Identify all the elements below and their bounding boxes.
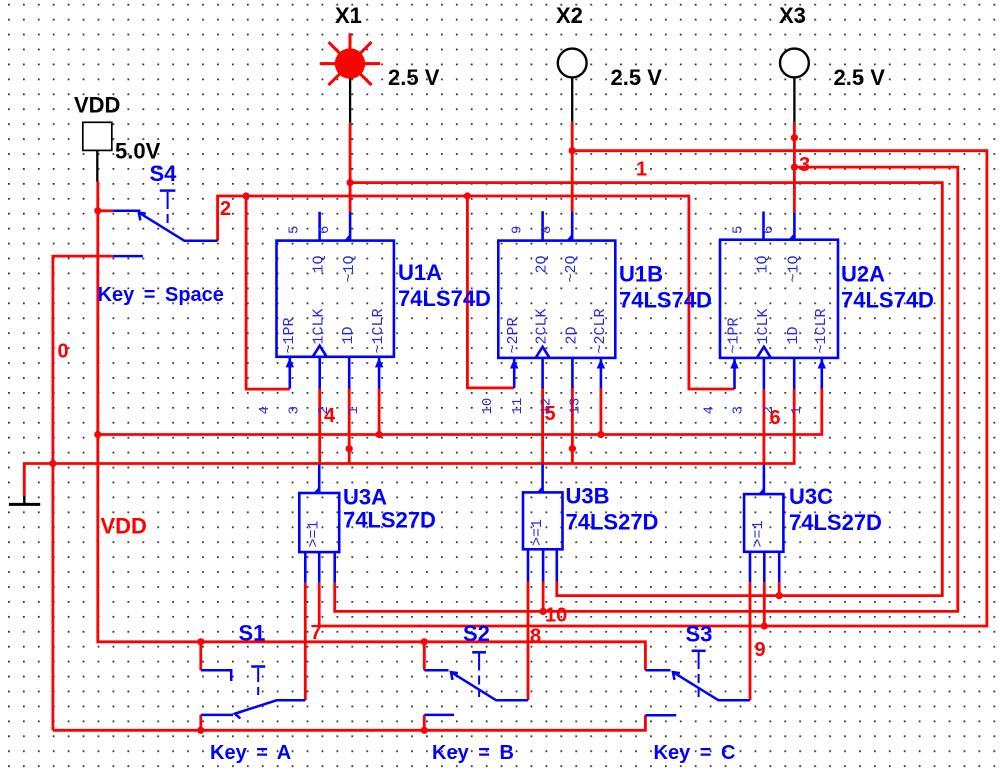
junction at VDD vertical and CLR bus — [94, 431, 101, 438]
svg-text:>=1: >=1 — [306, 520, 323, 547]
junction net 2 at U1A branch — [243, 192, 250, 199]
junction X3 lead and net 3 line — [791, 164, 798, 171]
svg-text:~2PR: ~2PR — [505, 317, 522, 353]
wire X1 lamp lead down to U1A pin 6 — [349, 123, 352, 212]
wire U3B output up to U1B 2CLK — [541, 387, 544, 464]
svg-text:1D: 1D — [785, 326, 802, 344]
gate U3A output tick — [314, 487, 320, 494]
junction on U1A 1D wire — [346, 445, 353, 452]
wire VDD stub to S4 left terminal — [98, 209, 113, 212]
svg-text:U2A: U2A — [841, 262, 885, 287]
svg-text:~1PR: ~1PR — [281, 317, 298, 353]
wire net 0 left vertical from S4 lower throw down to bottom rail — [53, 256, 113, 730]
svg-text:1Q: 1Q — [755, 255, 772, 273]
svg-text:S2: S2 — [463, 621, 490, 646]
svg-text:2.5 V: 2.5 V — [388, 65, 440, 90]
svg-text:1: 1 — [346, 406, 362, 414]
svg-text:74LS74D: 74LS74D — [841, 288, 934, 313]
wire S1 top contact stub from rail — [199, 642, 202, 671]
svg-text:Key = B: Key = B — [432, 742, 514, 764]
svg-text:13: 13 — [567, 398, 583, 415]
wire U1A 1D down to ground line — [348, 389, 351, 464]
junction S1 bottom at bottom rail — [197, 727, 204, 734]
svg-text:74LS27D: 74LS27D — [789, 510, 882, 535]
junction U1B ~2CLR at CLR bus — [597, 431, 604, 438]
lamp X1 (lit) — [320, 33, 381, 123]
wire net 8 S2 common up to U3B left input — [527, 582, 530, 701]
junction U1A ~1CLR at CLR bus — [376, 431, 383, 438]
svg-text:4: 4 — [702, 406, 718, 414]
svg-text:~2CLR: ~2CLR — [592, 308, 609, 353]
NOR gate U3C 74LS27D — [744, 465, 783, 583]
svg-text:S3: S3 — [686, 622, 713, 647]
svg-text:1D: 1D — [340, 326, 357, 344]
wire S2 bottom contact stub from bottom rail — [423, 715, 426, 730]
svg-text:3: 3 — [287, 406, 303, 414]
wire X2 lamp lead down to U1B pin 8 — [571, 122, 574, 212]
svg-text:10: 10 — [545, 605, 567, 627]
svg-text:9: 9 — [755, 639, 766, 661]
wire net 7 S1 common up to U3A left input — [304, 583, 307, 701]
svg-text:Key = A: Key = A — [210, 742, 291, 764]
svg-text:>=1: >=1 — [750, 520, 767, 547]
svg-text:VDD: VDD — [101, 514, 147, 539]
svg-text:S1: S1 — [239, 621, 266, 646]
wire net 9 S3 common up to U3C left input — [749, 582, 752, 700]
svg-text:Key = C: Key = C — [654, 742, 736, 764]
wire net 3 from X3 via right-side vertical x=958 to y=611 line and U3A right input — [335, 167, 958, 611]
svg-text:74LS74D: 74LS74D — [398, 286, 491, 311]
svg-text:1: 1 — [789, 406, 805, 414]
gate U3C output tick — [758, 488, 764, 495]
svg-text:~1PR: ~1PR — [726, 317, 743, 353]
svg-text:74LS27D: 74LS27D — [343, 508, 436, 533]
svg-text:5.0V: 5.0V — [115, 139, 161, 164]
gate U3B output tick — [537, 486, 543, 493]
svg-text:~1CLR: ~1CLR — [370, 308, 387, 353]
svg-text:4: 4 — [257, 406, 273, 414]
wire S2 top contact stub from rail — [423, 642, 426, 671]
wire S1 bottom contact stub from bottom rail — [199, 715, 202, 730]
svg-text:12: 12 — [539, 398, 555, 415]
junction U3C middle input on net 1 line — [761, 622, 768, 629]
svg-text:S4: S4 — [150, 161, 178, 186]
junction on U1B 2D wire — [569, 445, 576, 452]
svg-text:U3A: U3A — [343, 485, 387, 510]
svg-text:X1: X1 — [335, 3, 362, 28]
svg-text:~1CLR: ~1CLR — [813, 308, 830, 353]
svg-text:2D: 2D — [563, 326, 580, 344]
svg-text:2Q: 2Q — [534, 255, 551, 273]
junction X2 lead and net 1 line — [569, 147, 576, 154]
svg-text:X3: X3 — [779, 3, 806, 28]
junction at VDD and S4 terminal — [94, 207, 101, 214]
wire net CLR bus y=434.5 from VDD vertical to U2A ~1CLR — [98, 389, 822, 435]
svg-text:~1Q: ~1Q — [341, 255, 358, 282]
wire U1A ~1CLR pin to CLR bus — [378, 389, 381, 435]
NOR gate U3A 74LS27D — [299, 464, 339, 583]
svg-text:3: 3 — [799, 154, 810, 176]
junction X1 lead and net 3 line — [347, 179, 354, 186]
svg-text:6: 6 — [761, 226, 777, 234]
wire U3A output up to U1A 1CLK — [318, 389, 321, 465]
svg-text:U3B: U3B — [566, 484, 610, 509]
switch S2 — [424, 652, 528, 715]
wire bottom rail y=730.3 to S3 bottom contact — [53, 715, 646, 730]
junction net 2 at U1B branch — [464, 192, 471, 199]
wire VDD vertical from VDD symbol down to bottom rail, then right to S3 top contact — [98, 182, 646, 671]
wire U1B ~2CLR pin to CLR bus — [600, 388, 603, 435]
svg-text:6: 6 — [317, 226, 333, 234]
flip-flop U2A 74LS74D — [720, 212, 838, 390]
wire U3B middle input to y=611 line — [542, 582, 545, 612]
svg-text:>=1: >=1 — [529, 519, 546, 546]
wire net 2 from S4 common up and right to U2A ~1PR — [218, 196, 735, 389]
svg-text:~1Q: ~1Q — [785, 255, 802, 282]
switch S3 — [645, 651, 750, 715]
flip-flop U1B 74LS74D — [498, 211, 615, 388]
flip-flop U1A 74LS74D — [277, 212, 394, 389]
wire U1B 2D down to ground line — [571, 387, 574, 464]
svg-text:Key = Space: Key = Space — [98, 284, 224, 306]
wire U3C output up to U2A 1CLK — [763, 389, 766, 465]
svg-text:2.5 V: 2.5 V — [834, 65, 886, 90]
svg-text:2CLK: 2CLK — [534, 308, 551, 344]
junction X3 lead upper — [791, 134, 798, 141]
svg-text:5: 5 — [287, 226, 303, 234]
svg-text:X2: X2 — [556, 3, 583, 28]
junction net 0 left vertical at ground line — [49, 460, 56, 467]
svg-text:7: 7 — [311, 622, 322, 644]
wire net X1 to U3B and U3C right inputs via right-side vertical x=942 — [350, 183, 942, 596]
svg-text:2: 2 — [316, 406, 332, 414]
svg-text:1: 1 — [636, 159, 647, 181]
switch S4 — [113, 191, 218, 257]
svg-text:1CLK: 1CLK — [755, 308, 772, 344]
wire U3C right input to net X1 line — [778, 582, 781, 595]
svg-text:10: 10 — [480, 398, 496, 415]
power VDD symbol — [83, 122, 112, 181]
junction S1 top at VDD rail — [197, 638, 204, 645]
svg-text:VDD: VDD — [74, 93, 120, 118]
NOR gate U3B 74LS27D — [523, 464, 563, 582]
wire net 2 branch down to U1A ~1PR — [246, 196, 290, 389]
wire net 0 ground line y=463.5 from ground to U2A 1D — [24, 389, 794, 497]
svg-text:2: 2 — [761, 406, 777, 414]
wire net 1 from X2 via right-side vertical x=987 to y=626 line and U3A middle input — [319, 151, 987, 626]
wire U3C middle input to y=626 line — [763, 582, 766, 626]
ground — [9, 496, 40, 504]
svg-text:5: 5 — [731, 226, 747, 234]
switch S1 — [201, 667, 305, 719]
svg-text:3: 3 — [731, 406, 747, 414]
junction S2 top at VDD rail — [421, 638, 428, 645]
svg-text:U1A: U1A — [398, 260, 442, 285]
svg-text:2: 2 — [220, 198, 231, 220]
junction S2 bottom at bottom rail — [421, 727, 428, 734]
svg-text:1Q: 1Q — [311, 255, 328, 273]
svg-text:74LS27D: 74LS27D — [566, 510, 659, 535]
wire net 2 branch down to U1B ~2PR — [467, 196, 514, 388]
svg-text:8: 8 — [530, 626, 541, 648]
junction U3C right input on net X1 line — [776, 592, 783, 599]
svg-text:74LS74D: 74LS74D — [619, 288, 712, 313]
svg-text:1CLK: 1CLK — [311, 308, 328, 344]
junction U3B middle input on net 3 line — [540, 608, 547, 615]
lamp X2 — [558, 49, 587, 122]
svg-text:8: 8 — [539, 226, 555, 234]
svg-text:2.5 V: 2.5 V — [611, 65, 663, 90]
lamp X3 — [780, 49, 809, 122]
svg-text:~2Q: ~2Q — [563, 255, 580, 282]
svg-text:U3C: U3C — [789, 484, 833, 509]
svg-text:0: 0 — [58, 341, 69, 363]
wire X3 lamp lead down to U2A pin 6 — [793, 122, 796, 212]
svg-text:U1B: U1B — [619, 262, 663, 287]
svg-text:9: 9 — [510, 226, 526, 234]
svg-text:11: 11 — [510, 398, 526, 415]
